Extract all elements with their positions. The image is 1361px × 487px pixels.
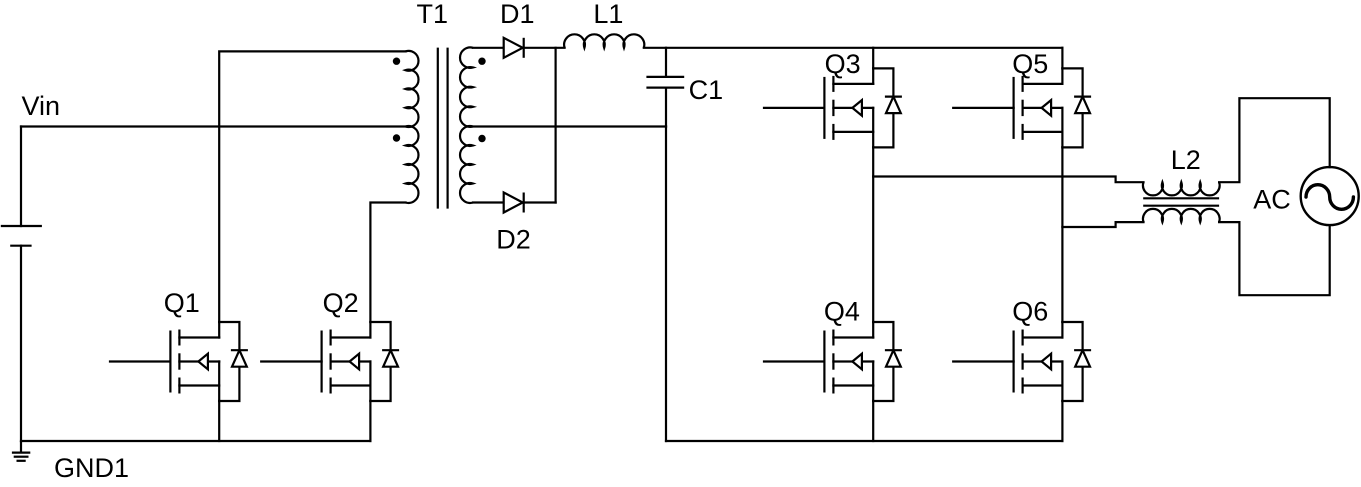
transistor Q1 [110,288,247,401]
T1 primary dot lower [393,134,400,141]
wire D2 cathode to rectifier node [524,201,556,203]
diode D2 [496,193,531,255]
wire C1 to bottom rail [665,127,667,442]
T1 secondary winding lower [460,126,473,203]
T1 core [438,48,448,209]
T1 primary winding lower [406,126,419,203]
transistor Q4 [764,296,901,401]
wire L2 bottom to AC source [1219,222,1330,295]
svg-text:D1: D1 [500,0,535,29]
transistor Q2 [261,288,398,401]
L2 winding top [1143,182,1220,195]
wire T1 secondary bottom to D2 [473,201,504,203]
wire Q4 source to bottom rail [872,401,874,441]
diode D1 [500,0,535,58]
svg-text:Q6: Q6 [1012,296,1048,326]
svg-text:Q2: Q2 [323,288,359,318]
svg-text:C1: C1 [689,75,724,105]
svg-text:Q3: Q3 [825,49,861,79]
wire Q2 source to GND [369,401,371,441]
transformer T1 [393,0,486,209]
wire T1 secondary top to D1 [473,47,504,49]
wire GND1 rail [21,440,370,442]
svg-text:Q5: Q5 [1012,49,1048,79]
L2 winding bottom [1143,209,1220,222]
wire rectifier vertical D1-D2 [554,48,556,203]
wire T1 primary top to Q1 drain [219,51,405,322]
svg-text:Q4: Q4 [824,296,860,326]
inductor L2 [1143,145,1220,222]
wire bridge output A to L2 top [873,177,1143,183]
transistor Q3 [764,49,901,147]
transistor Q6 [953,296,1090,401]
svg-text:AC: AC [1253,185,1291,215]
svg-text:L1: L1 [593,0,623,29]
wire T1 primary bottom to Q2 drain [370,203,405,323]
T1 primary dot upper [393,58,400,65]
svg-text:D2: D2 [496,224,531,254]
inductor L1 [564,0,644,48]
wire bottom rail [666,440,1062,442]
L2 core [1143,198,1219,205]
capacitor C1 [646,48,723,127]
wire L1 to top rail [644,47,1063,49]
ground GND1 [12,441,30,461]
wire Q1 source to GND [218,401,220,441]
T1 secondary winding upper [460,47,473,126]
battery [1,226,42,246]
svg-text:L2: L2 [1171,145,1201,175]
wire battery to GND rail [20,246,22,441]
svg-text:GND1: GND1 [54,453,129,483]
T1 secondary dot lower [478,135,485,142]
svg-text:T1: T1 [417,0,449,29]
wire Q3 drain to top rail [872,48,874,69]
wire Q6 source to bottom rail [1061,401,1063,441]
transistor Q5 [953,49,1090,147]
wire D1 cathode to L1 [524,47,565,49]
wire Vin to battery [20,127,22,227]
T1 secondary dot upper [478,58,485,65]
wire L2 top to AC source [1219,98,1330,182]
AC source [1253,167,1358,225]
svg-text:Q1: Q1 [164,288,200,318]
wire Q5 source to Q6 drain [1061,147,1063,322]
wire Vin rail [21,125,406,127]
wire Q3 source to Q4 drain [872,147,874,322]
T1 primary winding upper [406,51,419,127]
wire Q5 drain to top rail [1061,48,1063,69]
svg-text:Vin: Vin [22,91,61,121]
wire T1 secondary center tap to C1 [473,125,666,127]
wire bridge output B to L2 bottom [1062,222,1143,227]
